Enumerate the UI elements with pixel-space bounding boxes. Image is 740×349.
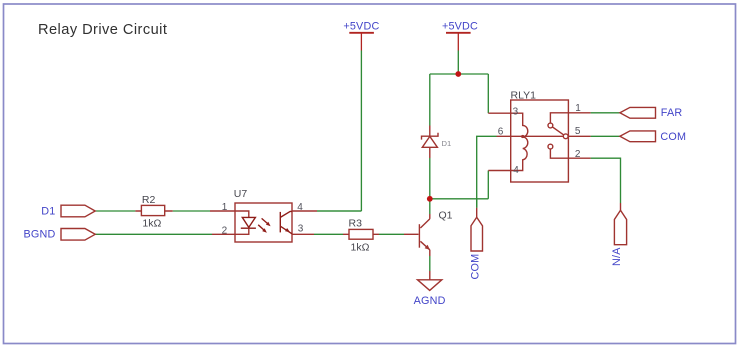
svg-text:4: 4 xyxy=(513,165,519,176)
power +5VDC (left) xyxy=(343,21,379,51)
svg-text:COM: COM xyxy=(470,254,482,280)
svg-text:R3: R3 xyxy=(349,217,363,229)
resistor R2 xyxy=(135,194,172,229)
wire: BGND connector to U7 pin 2 xyxy=(95,233,212,235)
wire: D1 connector to R2 xyxy=(95,210,135,212)
svg-text:N/A: N/A xyxy=(611,247,623,266)
svg-text:2: 2 xyxy=(575,149,581,160)
svg-text:3: 3 xyxy=(513,107,519,118)
connector COM (bottom) xyxy=(470,208,483,280)
transistor Q1 xyxy=(404,209,453,256)
svg-text:Relay Drive Circuit: Relay Drive Circuit xyxy=(38,22,167,38)
power +5VDC (right) xyxy=(442,21,478,51)
connector FAR xyxy=(620,107,683,119)
RLY1 armature xyxy=(552,127,563,135)
connector N/A xyxy=(611,203,627,266)
U7 internal phototransistor xyxy=(279,212,281,233)
RLY1 pin 6 line xyxy=(497,135,564,137)
wire: collector node to relay pin 4 drop xyxy=(430,198,489,200)
relay RLY1 xyxy=(488,90,590,182)
svg-text:4: 4 xyxy=(297,202,303,213)
wire: R2 to U7 pin 1 xyxy=(173,210,210,212)
wire: relay pin 1 to FAR xyxy=(591,112,620,114)
connector COM (right) xyxy=(620,131,686,143)
ground AGND xyxy=(414,271,446,307)
wire: relay pin 4 down to collector rail xyxy=(487,171,489,199)
svg-text:3: 3 xyxy=(298,223,304,234)
svg-text:U7: U7 xyxy=(234,188,248,200)
wire: rail down to diode D1 cathode xyxy=(429,74,431,126)
svg-text:Q1: Q1 xyxy=(439,209,453,221)
resistor R3 xyxy=(343,217,379,253)
wire: top rail +5V xyxy=(430,73,489,75)
svg-text:1: 1 xyxy=(575,103,581,114)
svg-text:R2: R2 xyxy=(142,194,156,206)
optocoupler U7 xyxy=(210,188,317,242)
svg-text:+5VDC: +5VDC xyxy=(343,21,379,33)
diode D1 (flyback) xyxy=(422,126,452,159)
wire: U7 pin 4 to +5V riser xyxy=(317,210,361,212)
wire: rail down to relay pin 3 xyxy=(487,74,489,113)
svg-text:6: 6 xyxy=(498,126,504,137)
RLY1 contact pin 1 xyxy=(550,113,568,123)
wire: relay pin 6 to bottom COM connector xyxy=(477,136,497,208)
wire: U7 pin 3 to R3 xyxy=(314,233,343,235)
wire: collector node to Q1 collector xyxy=(429,199,431,214)
svg-text:1kΩ: 1kΩ xyxy=(142,217,161,229)
wire: R3 to Q1 base xyxy=(379,233,404,235)
svg-text:AGND: AGND xyxy=(414,295,446,307)
svg-text:1: 1 xyxy=(222,202,228,213)
junction: collector node xyxy=(427,196,433,202)
svg-text:2: 2 xyxy=(222,225,228,236)
svg-text:COM: COM xyxy=(660,131,686,143)
svg-text:D1: D1 xyxy=(41,206,55,218)
RLY1 contact pin 2 xyxy=(548,144,553,149)
svg-text:BGND: BGND xyxy=(24,229,56,241)
U7 LED light arrows xyxy=(262,218,268,223)
wire: left +5VDC down to U7 pin 4 line xyxy=(317,51,361,212)
svg-text:D1: D1 xyxy=(442,139,452,148)
RLY1 pin stubs xyxy=(568,113,590,158)
wire: bottom COM stem xyxy=(476,199,478,208)
wire: Q1 emitter to AGND xyxy=(429,256,431,271)
svg-text:1kΩ: 1kΩ xyxy=(351,241,370,253)
svg-text:FAR: FAR xyxy=(661,107,683,119)
wire: relay pin 5 to COM xyxy=(591,135,620,137)
RLY1 coil (pins 3-4) xyxy=(488,113,528,170)
wire: relay pin 2 to N/A connector xyxy=(591,158,621,203)
wire: diode anode down to collector node xyxy=(429,158,431,199)
svg-text:5: 5 xyxy=(575,126,581,137)
U7 internal LED xyxy=(235,211,249,217)
connector BGND xyxy=(24,229,96,241)
wire: right +5VDC stem xyxy=(457,51,459,75)
svg-text:+5VDC: +5VDC xyxy=(442,21,478,33)
junction: +5V rail node xyxy=(455,71,461,77)
connector D1 xyxy=(41,205,95,217)
